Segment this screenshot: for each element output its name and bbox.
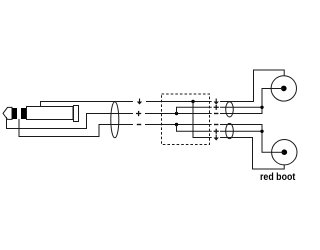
wire shield to top RCA bbox=[220, 70, 284, 102]
junction dot top RCA bbox=[260, 106, 263, 109]
wire plus to top RCA bbox=[220, 106, 262, 108]
wire into bottom RCA pin bbox=[272, 151, 285, 153]
wire into top RCA pin bbox=[271, 88, 284, 90]
cable jacket ellipse right top bbox=[226, 102, 234, 117]
junction dot bottom RCA bbox=[260, 130, 263, 133]
wire sleeve/shield from jack bbox=[41, 102, 134, 107]
minus symbol right bottom group bbox=[214, 124, 218, 126]
label red boot bbox=[260, 171, 310, 184]
wire ring into box bbox=[145, 124, 212, 126]
jack body bbox=[27, 107, 74, 120]
wire tip signal from jack bbox=[7, 114, 134, 129]
jack ring band 2 bbox=[21, 108, 26, 119]
shield symbol right bottom bbox=[214, 135, 219, 141]
RCA connector bottom circle bbox=[272, 140, 297, 165]
wire ring signal from jack bbox=[19, 119, 133, 137]
dashed connection box bbox=[162, 94, 210, 145]
wire shield into box bbox=[146, 101, 212, 103]
wire minus bottom group bbox=[220, 125, 262, 132]
junction dot tip bbox=[175, 112, 178, 115]
wire shield to bottom RCA bbox=[220, 138, 284, 170]
RCA connector top circle bbox=[271, 76, 296, 101]
minus symbol right top bbox=[214, 113, 218, 115]
wire ring branch down to plus out bbox=[177, 125, 212, 132]
jack collar bbox=[74, 106, 79, 122]
RCA top center pin dot bbox=[281, 86, 287, 92]
plus symbol left bbox=[136, 111, 141, 116]
jack tip insulator band 1 bbox=[12, 108, 17, 119]
junction dot shield bbox=[191, 100, 194, 103]
jack plug J1 tip arrow bbox=[3, 107, 12, 119]
shield symbol right top bbox=[214, 99, 219, 105]
wire shield branch to lower ground bbox=[193, 102, 212, 138]
minus symbol left bbox=[137, 124, 141, 126]
wire tip branch up to plus out bbox=[177, 107, 212, 113]
cable jacket ellipse right bottom bbox=[226, 123, 234, 138]
wire plus to bottom RCA bbox=[220, 131, 272, 152]
plus symbol right top bbox=[214, 105, 219, 110]
shield symbol left bbox=[137, 99, 142, 105]
plus symbol right bottom group bbox=[214, 129, 219, 134]
wire tip into box bbox=[145, 113, 212, 115]
RCA bottom center pin dot bbox=[282, 149, 288, 155]
cable jacket ellipse left bbox=[111, 102, 119, 138]
wire minus joins plus top bbox=[220, 89, 271, 114]
junction dot ring bbox=[175, 123, 178, 126]
